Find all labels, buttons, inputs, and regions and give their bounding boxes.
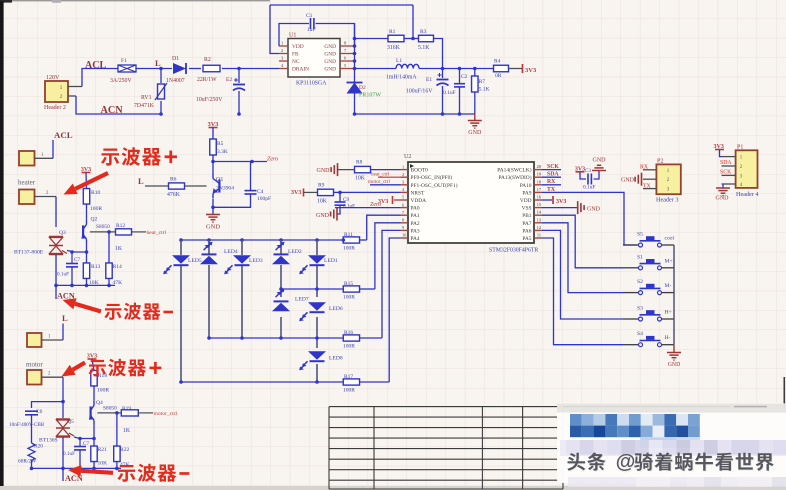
annotation oscilloscope- (heater) text [104, 304, 121, 320]
svg-text:2N3904: 2N3904 [216, 186, 234, 192]
svg-text:Q4: Q4 [96, 400, 103, 406]
power port 3V3 [522, 64, 524, 73]
svg-text:12: 12 [537, 225, 541, 230]
svg-text:R22: R22 [120, 447, 130, 453]
wire buttons common [673, 245, 675, 345]
svg-text:VDD: VDD [292, 44, 304, 50]
svg-text:R5: R5 [217, 141, 224, 147]
svg-text:5: 5 [402, 195, 404, 200]
wire heater to triac [55, 197, 57, 228]
svg-text:GND: GND [324, 67, 336, 73]
svg-text:H+: H+ [665, 310, 672, 316]
wire zero node [211, 160, 215, 164]
svg-text:PA4: PA4 [411, 236, 420, 242]
button S4 (H-) [623, 344, 639, 346]
svg-text:PB1: PB1 [522, 213, 532, 219]
annotation oscilloscope+ (heater) arrow [75, 173, 108, 189]
watermark blue mosaic [570, 414, 700, 448]
resistor R14 47K [107, 230, 111, 234]
svg-text:R15: R15 [344, 281, 353, 287]
resistor R5 3.3K [212, 128, 214, 140]
svg-text:LED1: LED1 [324, 258, 338, 264]
wire [136, 68, 172, 70]
svg-text:R12: R12 [116, 223, 125, 229]
svg-text:0.1uF: 0.1uF [443, 90, 456, 96]
svg-text:R21: R21 [98, 447, 108, 453]
svg-text:R11: R11 [344, 232, 353, 238]
LED5 [172, 255, 190, 263]
watermark text toutiao @qizhewoniukanshijie [567, 451, 775, 474]
svg-text:GND: GND [316, 213, 330, 219]
wire triac Q5 gate node [74, 437, 94, 439]
svg-text:motor_ctrl: motor_ctrl [154, 411, 178, 417]
net label heat_ctrl at U2 pin2 [378, 176, 401, 178]
LED3 [233, 255, 251, 263]
svg-text:5.1K: 5.1K [479, 87, 490, 93]
svg-text:R20: R20 [34, 444, 43, 450]
svg-text:GND: GND [668, 362, 681, 368]
svg-text:L: L [62, 313, 68, 323]
svg-text:@: @ [616, 451, 636, 473]
wire U2 pin7 to R11 [367, 215, 401, 240]
wire U2 pin14 to S1 [542, 215, 623, 268]
svg-text:PA5: PA5 [522, 236, 531, 242]
svg-text:R10: R10 [91, 190, 101, 196]
watermark backdrop [557, 403, 786, 483]
connector L pin [27, 333, 42, 347]
svg-text:C1: C1 [306, 13, 313, 19]
svg-text:ACL: ACL [54, 130, 73, 140]
resistor R22 47K [115, 411, 119, 415]
svg-text:20: 20 [537, 164, 541, 169]
svg-text:TX: TX [643, 183, 652, 189]
svg-text:100R: 100R [90, 206, 102, 212]
wire feedback top loop [270, 4, 413, 6]
wire U2 pin11 to S4 [542, 238, 623, 345]
svg-text:100R: 100R [343, 388, 355, 394]
svg-text:2: 2 [402, 172, 404, 177]
svg-text:3A/250V: 3A/250V [110, 78, 132, 84]
power port 3V3 at U2 pin16 [542, 199, 552, 201]
resistor R19 1K to motor_ctrl [97, 412, 120, 414]
capacitor C1 1uF [279, 24, 309, 47]
svg-text:D2: D2 [359, 85, 366, 91]
capacitor C7b 0.1uF motor [79, 439, 81, 447]
svg-text:C4: C4 [257, 189, 264, 195]
svg-text:NRST: NRST [411, 190, 425, 196]
fuse F1 [118, 65, 136, 72]
svg-text:S8050: S8050 [103, 406, 117, 412]
svg-text:FB: FB [292, 52, 299, 58]
triac Q3 BT137-800E [49, 236, 63, 238]
wire ACN rail heater [56, 284, 115, 286]
resistor R18 100R [92, 359, 94, 370]
svg-text:VSS: VSS [522, 206, 532, 212]
capacitor C2 0.1uF [458, 67, 462, 71]
svg-text:C7: C7 [83, 441, 89, 447]
svg-text:Header 2: Header 2 [44, 105, 66, 111]
svg-text:RV1: RV1 [141, 95, 152, 101]
svg-text:C9: C9 [343, 197, 349, 203]
svg-text:1K: 1K [115, 246, 123, 252]
button S3 (H+) [623, 318, 639, 320]
wire LED column 3 [241, 240, 243, 255]
svg-text:PA7: PA7 [522, 221, 531, 227]
wire LED column 1 [180, 240, 182, 255]
svg-text:F1: F1 [121, 58, 127, 64]
svg-text:3: 3 [402, 180, 404, 185]
net port ACN motor [62, 468, 64, 481]
svg-text:1: 1 [402, 164, 404, 169]
LED7 [272, 303, 290, 312]
svg-text:R4: R4 [494, 59, 501, 65]
wire LED column 2 [208, 240, 210, 255]
svg-text:PF0-OSC_IN(PF0): PF0-OSC_IN(PF0) [411, 174, 453, 181]
button S5 (cool) [623, 244, 639, 246]
svg-text:2: 2 [281, 48, 283, 53]
svg-text:FR107W: FR107W [359, 93, 381, 99]
svg-text:VDD: VDD [520, 198, 532, 204]
svg-text:PA0: PA0 [411, 206, 420, 212]
wire LED top bus [181, 239, 343, 241]
svg-text:heat_ctrl: heat_ctrl [147, 230, 167, 236]
svg-text:S3: S3 [637, 306, 643, 312]
svg-text:S8050: S8050 [96, 224, 110, 230]
svg-text:L: L [155, 58, 161, 68]
wire LED row2 bus [281, 288, 343, 290]
IC U1 KP3110SGA [288, 39, 340, 78]
svg-text:R1: R1 [389, 29, 396, 35]
annotation oscilloscope- (motor) arrow [81, 471, 113, 473]
capacitor C6 10nF/400V-CBB [25, 410, 38, 412]
svg-text:M+: M+ [665, 258, 673, 264]
inductor L1 1mH/140mA [355, 68, 397, 70]
svg-text:22R/1W: 22R/1W [197, 77, 217, 83]
svg-text:Q1: Q1 [216, 177, 223, 183]
capacitor C9 0.1uF [339, 192, 341, 201]
svg-text:Zero: Zero [267, 157, 278, 163]
IC U2 STM32F030F4P6TR [408, 162, 534, 243]
wire U2 pin12 to S3 [542, 230, 623, 319]
net port ACN heater [55, 285, 57, 299]
transistor Q2 S8050 [82, 225, 84, 238]
wire ACN from header pin2 [68, 95, 76, 97]
annotation oscilloscope+ (heater) text [101, 148, 119, 165]
svg-text:100R: 100R [97, 388, 109, 394]
svg-text:0.1uF: 0.1uF [63, 451, 75, 457]
svg-text:PA14(SWCLK): PA14(SWCLK) [497, 167, 531, 174]
connector P? ACL pin [19, 151, 35, 166]
wire U2 pin9 to R16 [382, 230, 401, 338]
svg-text:Header 3: Header 3 [656, 197, 679, 204]
ground sideways for C9 [336, 208, 338, 221]
svg-text:R7: R7 [479, 79, 486, 85]
wire LED row3 bus [209, 337, 343, 339]
net label SCK at U2 pin20 [542, 169, 561, 171]
svg-text:R8: R8 [356, 160, 363, 166]
svg-text:R2: R2 [204, 57, 211, 63]
svg-text:10K: 10K [355, 176, 366, 182]
svg-text:S5: S5 [637, 232, 643, 238]
wire Q1 emitter to gnd [212, 199, 214, 215]
triac Q5 BT136S [56, 418, 70, 420]
svg-text:S2: S2 [637, 279, 643, 285]
resistor R15 100R [343, 286, 359, 292]
svg-text:SDA: SDA [720, 160, 732, 166]
diode D1 1N4007 [173, 63, 186, 74]
ground GND for C3 (inverted) [592, 170, 606, 172]
svg-text:LED7: LED7 [295, 297, 309, 303]
svg-text:GND: GND [468, 130, 482, 136]
resistor R10 100R [85, 173, 88, 189]
svg-text:cool: cool [665, 236, 675, 242]
svg-text:120V: 120V [46, 75, 60, 81]
svg-text:Header 4: Header 4 [736, 191, 759, 198]
LED8 [308, 351, 326, 360]
svg-text:PF1-OSC_OUT(PF1): PF1-OSC_OUT(PF1) [411, 182, 458, 189]
LED2 [272, 256, 290, 264]
svg-text:100R: 100R [343, 344, 355, 350]
resistor R20 68R/2W (zigzag) [28, 443, 35, 461]
svg-text:VDDA: VDDA [411, 198, 427, 204]
wire triac to ACN [55, 255, 57, 286]
svg-text:C3: C3 [585, 169, 591, 174]
left black bar [0, 1, 4, 486]
connector heater pin [19, 190, 35, 205]
varistor RV1 [160, 69, 162, 84]
svg-text:H-: H- [665, 335, 671, 341]
connector P1 Header 4 [736, 150, 758, 188]
button S1 (M+) [623, 267, 639, 269]
svg-text:18: 18 [537, 179, 541, 184]
svg-text:Q3: Q3 [59, 230, 66, 236]
svg-text:PA10: PA10 [520, 183, 532, 189]
net label motor_ctrl at U2 pin3 [370, 184, 401, 186]
annotation oscilloscope- (heater) arrow [75, 304, 101, 312]
svg-text:RX: RX [547, 179, 556, 185]
svg-text:5.1K: 5.1K [418, 45, 430, 51]
wire to C6 branch [32, 402, 64, 408]
wire LED column 4 [280, 240, 282, 255]
wire ACN rail motor [32, 467, 122, 469]
svg-text:1: 1 [281, 41, 283, 46]
wire U2 pin8 to R15 [375, 223, 401, 289]
svg-text:13: 13 [537, 217, 541, 222]
wire motor to triac [62, 377, 64, 418]
switch node vertical [354, 24, 356, 115]
svg-text:ACL: ACL [85, 60, 106, 71]
net label RX at U2 pin18 [542, 184, 561, 186]
svg-text:0R: 0R [495, 73, 502, 79]
svg-text:L: L [138, 176, 144, 186]
svg-text:RX: RX [640, 165, 649, 171]
button S2 (M-) [623, 292, 639, 294]
svg-text:11: 11 [537, 233, 541, 238]
resistor R2 22R/1W [189, 68, 201, 70]
svg-text:10K: 10K [98, 461, 108, 467]
ground GND at P1 pin4 [722, 184, 724, 188]
svg-text:C2: C2 [461, 74, 468, 80]
svg-text:R19: R19 [122, 406, 131, 412]
svg-text:LED3: LED3 [249, 258, 263, 264]
svg-text:GND: GND [206, 224, 220, 231]
LED6 [308, 302, 326, 311]
wire triac Q5 to ACN [62, 437, 64, 468]
svg-text:PA1: PA1 [411, 213, 420, 219]
svg-text:SCK: SCK [547, 164, 559, 170]
wire LED bottom bus [181, 381, 343, 383]
svg-text:PA13(SWDIO): PA13(SWDIO) [498, 174, 531, 181]
svg-text:KP3110SGA: KP3110SGA [296, 81, 327, 87]
svg-text:S4: S4 [637, 331, 643, 337]
svg-text:100uF/16V: 100uF/16V [406, 89, 433, 95]
LED4 [200, 256, 218, 264]
svg-text:LED5: LED5 [188, 258, 202, 264]
svg-text:LED4: LED4 [224, 249, 238, 255]
svg-text:P1: P1 [737, 145, 743, 151]
svg-text:C6: C6 [36, 409, 43, 415]
wire Q2 emitter to gate node [86, 244, 88, 252]
svg-text:3V3: 3V3 [291, 190, 301, 196]
wire Q4 emitter to gate node [93, 425, 95, 439]
resistor R7 5.1K [473, 67, 477, 71]
annotation oscilloscope- (motor) text [117, 465, 135, 482]
svg-text:Q2: Q2 [91, 217, 98, 223]
svg-text:L1: L1 [396, 58, 402, 64]
svg-text:STM32F030F4P6TR: STM32F030F4P6TR [489, 248, 538, 254]
ground sideways at P2 pin2 [641, 173, 643, 186]
svg-text:1mH/140mA: 1mH/140mA [386, 75, 417, 81]
svg-text:D1: D1 [172, 56, 179, 62]
connector Header 2 (120V) [45, 81, 68, 102]
ground GND power rail [474, 114, 476, 120]
svg-text:19: 19 [537, 172, 541, 177]
svg-text:GND: GND [324, 44, 336, 50]
svg-text:100R: 100R [343, 295, 355, 301]
svg-text:0.1uF: 0.1uF [583, 185, 595, 191]
transistor Q1 2N3904 [212, 162, 214, 175]
resistor R13 10K [86, 252, 88, 263]
capacitor E1 100uF/16V [442, 69, 444, 79]
svg-text:C7: C7 [74, 257, 80, 263]
svg-text:motor_ctrl: motor_ctrl [368, 179, 390, 185]
svg-text:68R/2W: 68R/2W [18, 459, 37, 465]
svg-text:GND: GND [587, 206, 601, 212]
svg-text:GND: GND [317, 168, 331, 174]
svg-text:100pF: 100pF [257, 196, 271, 202]
net label SDA at U2 pin19 [542, 176, 561, 178]
resistor R3 5.1K [404, 38, 419, 40]
capacitor C4 100pF [250, 162, 252, 191]
svg-text:R14: R14 [113, 264, 123, 270]
svg-text:LED2: LED2 [288, 249, 302, 255]
svg-text:R6: R6 [170, 177, 177, 183]
svg-text:GND: GND [593, 158, 607, 164]
svg-text:100R: 100R [343, 246, 355, 252]
svg-text:3V3: 3V3 [525, 67, 537, 74]
ground GND below Q1 [206, 214, 220, 216]
svg-text:SCK: SCK [720, 169, 732, 175]
transistor Q4 S8050 [89, 406, 91, 419]
svg-text:15: 15 [537, 202, 541, 207]
svg-text:316K: 316K [387, 45, 401, 51]
svg-text:P2: P2 [657, 159, 663, 165]
resistor R16 100R [343, 335, 359, 341]
resistor R21 10K [93, 439, 95, 447]
diode D2 FR107W [347, 83, 363, 94]
svg-text:PA9: PA9 [522, 190, 531, 196]
svg-text:GND: GND [324, 59, 336, 65]
top edge hairline [0, 0, 270, 1]
wire triac gate node [67, 251, 87, 253]
svg-text:10nF/400V-CBB: 10nF/400V-CBB [9, 422, 45, 428]
svg-text:PA2: PA2 [411, 221, 420, 227]
svg-text:GND: GND [716, 196, 730, 202]
svg-text:1uF: 1uF [307, 27, 317, 33]
capacitor E2 10uF/250V [237, 67, 241, 71]
resistor R1 316K [355, 38, 389, 40]
capacitor C7 0.1uF [71, 252, 73, 263]
svg-text:10uF/250V: 10uF/250V [196, 97, 223, 103]
ground sideways at U2 pin15 [542, 207, 578, 209]
resistor R12 1K to heat_ctrl [90, 231, 116, 233]
svg-text:GND: GND [621, 178, 635, 184]
svg-text:PA6: PA6 [522, 228, 531, 234]
svg-text:10K: 10K [317, 198, 328, 204]
svg-text:M-: M- [665, 283, 672, 289]
sheet border right edge [783, 377, 785, 409]
svg-text:476K: 476K [167, 192, 181, 198]
svg-text:BT136S: BT136S [39, 438, 58, 444]
svg-text:1K: 1K [123, 428, 131, 434]
svg-text:BT137-800E: BT137-800E [14, 250, 44, 256]
resistor R4 0R [494, 65, 509, 72]
svg-text:SDA: SDA [547, 172, 559, 178]
resistor R9 10K [304, 191, 318, 193]
capacitor C3 0.1uF [580, 172, 586, 179]
ground GND buttons [673, 345, 675, 353]
svg-text:R16: R16 [344, 330, 353, 336]
annotation oscilloscope+ (motor) text [88, 360, 105, 376]
svg-text:LED8: LED8 [329, 356, 343, 362]
svg-text:R18: R18 [98, 373, 108, 379]
svg-text:10: 10 [402, 233, 406, 238]
annotation oscilloscope+ (motor) arrow [73, 363, 85, 370]
svg-text:0.1uF: 0.1uF [343, 204, 355, 210]
svg-text:NC: NC [292, 59, 300, 65]
svg-text:R13: R13 [91, 264, 101, 270]
svg-text:GND: GND [324, 52, 336, 58]
wire ACL from header pin1 [68, 86, 82, 88]
wire U2 pin13 to S2 [542, 223, 623, 293]
svg-text:9: 9 [402, 225, 404, 230]
svg-text:R9: R9 [318, 183, 325, 189]
svg-text:1N4007: 1N4007 [166, 78, 185, 84]
ground sideways for R8 [337, 163, 339, 176]
svg-text:U2: U2 [404, 154, 411, 160]
svg-text:R17: R17 [344, 374, 353, 380]
svg-text:7D471K: 7D471K [134, 103, 155, 109]
svg-text:ACN: ACN [101, 105, 124, 116]
svg-text:U1: U1 [289, 33, 296, 39]
resistor R8 10K [338, 169, 355, 171]
svg-text:8: 8 [402, 218, 404, 223]
svg-text:3V3: 3V3 [556, 199, 566, 205]
svg-text:3.3K: 3.3K [217, 149, 228, 155]
svg-text:PA3: PA3 [411, 228, 420, 234]
LED1 [308, 255, 326, 263]
svg-text:motor: motor [26, 361, 43, 369]
